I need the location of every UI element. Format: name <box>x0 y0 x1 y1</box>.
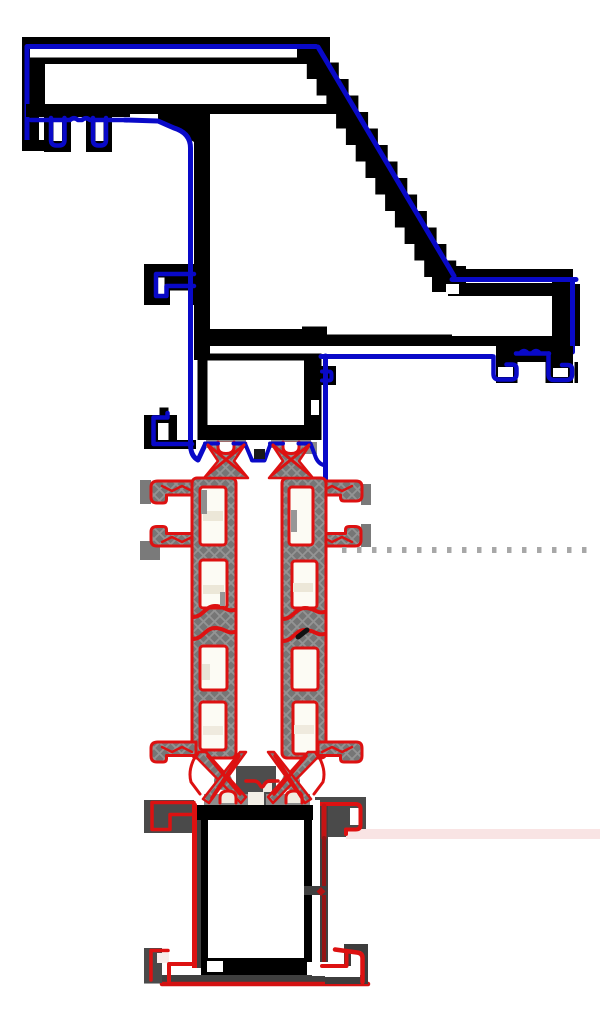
black strip above head blue line <box>450 269 573 278</box>
stem wall (black) <box>194 104 210 360</box>
claw B top gasket u (red) <box>283 442 299 454</box>
right strip chamber 1 <box>289 487 313 545</box>
left strip chamber 4 <box>200 702 226 750</box>
claw A inner red diagonals <box>207 445 245 475</box>
gasket hook 1 blue J <box>494 357 517 380</box>
top-right hook (gray) <box>315 797 366 837</box>
top-right hook red outline <box>320 804 361 834</box>
left strip body <box>192 478 236 758</box>
bottom-left hook red outline <box>151 951 168 981</box>
chamber mottle patches <box>203 511 223 521</box>
hook under bar 2 blue U <box>93 118 106 146</box>
claw D foot (gray) <box>266 794 310 805</box>
pink tint band <box>346 829 600 839</box>
claw D right skirt <box>314 759 324 794</box>
flange band with tab (black) <box>210 327 573 347</box>
gray strip under wall left <box>206 440 246 448</box>
gray strip under wall right <box>271 440 311 448</box>
right strip shadow blocks <box>361 484 371 505</box>
blue right leg <box>323 356 328 481</box>
top-left hook red outline <box>152 803 194 830</box>
bottom-left red corner <box>169 964 195 981</box>
blue top outline <box>27 47 316 144</box>
stem hook lower (black) <box>144 408 196 450</box>
claw C left skirt <box>190 759 200 794</box>
bar bottom-left thick wall <box>26 104 130 117</box>
top bar inner slot (white) <box>30 49 302 58</box>
right strip body <box>282 478 326 758</box>
cream pocket in connector <box>263 783 272 792</box>
gasket hook mass (black) <box>496 346 573 383</box>
box right crossbar <box>304 886 327 895</box>
box right slit (white) <box>313 800 320 962</box>
white inside hook 2 <box>553 368 568 377</box>
claw A body (gray hourglass) <box>204 443 248 478</box>
top bar left fill block <box>22 60 45 108</box>
bottom-left hook slot (white) <box>157 953 169 963</box>
glazing box bottom wall (black) <box>198 425 320 440</box>
bottom-left hook (gray) <box>144 948 162 983</box>
white pocket left of hook 1 <box>480 360 493 383</box>
claw D inner red diagonals <box>274 756 306 798</box>
red V connecting line between claws <box>246 781 278 787</box>
glazing box top wall (black) <box>198 354 322 361</box>
bottom-right hook white pocket <box>325 966 360 977</box>
left strip shadow blocks <box>140 480 151 504</box>
right strip bottom arm (foot down) <box>318 742 362 762</box>
gasket hook 2 blue J <box>549 354 573 381</box>
claw D central mass (gray) <box>282 772 300 790</box>
top bar chamber (white) <box>45 70 331 104</box>
right head outer sliver <box>574 284 580 346</box>
right strip chamber 4 <box>293 702 317 754</box>
hook under bar 1 white channel <box>54 122 63 141</box>
hook under bar 2 white channel <box>96 122 104 141</box>
left strip top arm 1 (foot down) <box>151 481 196 503</box>
left foot black block <box>22 140 48 151</box>
box right outer bar (gray) <box>320 806 328 962</box>
right strip chamber 3 <box>292 648 318 690</box>
left strip chamber 2 <box>200 560 227 608</box>
left strip top arm 2 (lip up) <box>151 527 196 547</box>
right strip chamber 2 <box>292 561 317 608</box>
box right wall (black) <box>304 820 312 962</box>
box right outer dark red line <box>322 806 327 838</box>
glazing box right wall notch (white) <box>311 400 319 415</box>
box interior (white) <box>208 820 304 962</box>
blue line between hooks with bumps <box>516 351 549 354</box>
claw C foot (gray) <box>204 794 248 805</box>
faint dotted row <box>342 547 587 553</box>
claw C central mass (gray) <box>214 772 232 790</box>
hook under bar 1 blue U <box>51 118 65 146</box>
diagonal wall (black staircase band) <box>297 46 466 277</box>
top bar left wall <box>22 37 30 150</box>
blue underline of bar with gasket bumps <box>31 118 126 120</box>
white notch at head corner <box>446 284 459 294</box>
box left red line <box>192 805 197 978</box>
right head top skin (black) <box>448 283 570 296</box>
hook under bar 2 (black block) <box>86 117 112 152</box>
black blob between claws <box>254 449 265 459</box>
stem hook upper (black) <box>144 264 196 306</box>
glazing box left wall (black) <box>198 360 208 425</box>
gray blob right of claw B <box>303 442 317 454</box>
blue knob on box right (black back) <box>319 366 336 385</box>
stem hook upper blue outline <box>156 274 194 296</box>
top bar bottom wall <box>26 104 338 114</box>
left strip bottom arm (foot down) <box>151 742 196 762</box>
claw C bottom gasket n (red) <box>220 791 236 803</box>
black dash mark on right strip <box>298 630 307 637</box>
claw B body (gray hourglass) <box>269 443 313 478</box>
bottom skirt (gray) <box>144 975 362 984</box>
top-right hook notch (white) <box>350 808 359 825</box>
claw A blue grip outline <box>205 442 218 446</box>
right strip knuckle wiggle <box>283 608 324 619</box>
left strip chamber 3 <box>200 646 227 690</box>
claw C inner red diagonals <box>208 756 240 798</box>
blue right head outer line <box>570 282 575 352</box>
left strip chamber 1 <box>200 487 226 545</box>
gap between gasket hooks (white) <box>518 362 546 384</box>
blue diagonal outline <box>318 47 454 276</box>
claw B blue grip outline <box>270 442 283 446</box>
blue knob bracket <box>322 372 332 381</box>
bottom-left white gap <box>162 968 201 975</box>
stem hook lower blue outline <box>154 413 193 444</box>
flange slot (white) <box>210 346 496 354</box>
left strip knuckle wiggle <box>193 606 234 617</box>
right strip top arm 2 (lip up) <box>318 527 361 547</box>
box bottom wall (black) <box>201 958 307 975</box>
skirt red bottom line <box>162 982 368 987</box>
right strip top arm 1 (foot down) <box>318 481 362 501</box>
glazing box right wall (black) <box>304 354 322 441</box>
claw D crossing bands <box>268 752 318 803</box>
bottom-right white slot <box>312 962 326 976</box>
stem blue line <box>125 120 206 460</box>
glazing box interior (white) <box>208 361 305 426</box>
bottom-right hook (gray J frame) <box>325 944 368 984</box>
box top wall (black) <box>197 805 313 820</box>
claw B inner red diagonals <box>272 445 310 475</box>
black sliver right of hook 2 <box>575 362 579 383</box>
blue left foot <box>27 130 45 146</box>
flange chamber (white) <box>452 296 552 336</box>
box left wall (black) <box>201 820 208 962</box>
claw D bottom gasket n (red) <box>286 791 302 803</box>
hook under bar 1 (black block) <box>44 117 71 152</box>
bottom-right hook red outline <box>335 950 363 983</box>
top bar outer skin (black) <box>22 37 330 64</box>
right head right wall (black) <box>552 282 570 346</box>
dark gray connector between claws <box>236 766 276 805</box>
claw C crossing bands <box>196 752 246 803</box>
blue right head top line <box>452 277 576 282</box>
bottom wall notch (white) <box>207 961 223 972</box>
box left gray line <box>197 820 201 975</box>
white inside hook 1 <box>498 367 513 377</box>
diagonal-to-head corner (black) <box>432 266 466 292</box>
blue flange bottom line <box>321 354 492 359</box>
claw A top gasket u (red) <box>218 442 234 454</box>
top-left hook (gray) <box>144 800 194 833</box>
bar-to-stem black dip <box>158 104 210 142</box>
red diamond on crossbar <box>317 887 326 896</box>
